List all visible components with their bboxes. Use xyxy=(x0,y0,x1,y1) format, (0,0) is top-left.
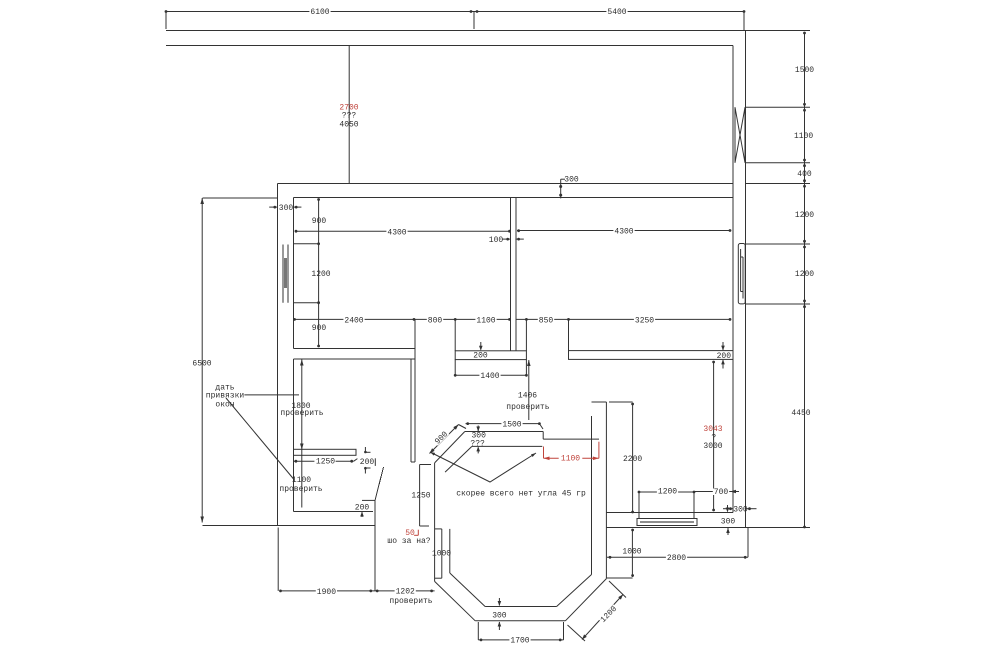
svg-text:2200: 2200 xyxy=(623,455,642,464)
arrow red 1100 left/right xyxy=(544,457,550,461)
arrowheads xyxy=(200,179,756,626)
window W4 bottom-right room bottom wall xyxy=(637,519,697,526)
svg-text:1500: 1500 xyxy=(795,66,814,75)
beam B rect 1400x200 xyxy=(455,351,526,360)
dim 6500 line xyxy=(201,198,203,523)
svg-text:3000: 3000 xyxy=(703,442,722,451)
dim left window extensions xyxy=(294,243,319,245)
svg-text:200: 200 xyxy=(473,352,488,361)
dim right column line 1500/1100/400/1200/1200/4450 xyxy=(804,32,806,527)
svg-text:1200: 1200 xyxy=(311,270,330,279)
arrow 6500 bottom (down) xyxy=(200,517,204,523)
arrow 1406 leader (up) xyxy=(527,360,531,366)
dim 2200 line xyxy=(632,403,634,513)
sill lower-left room 1250 xyxy=(294,449,357,455)
windows xyxy=(283,107,745,525)
svg-text:900: 900 xyxy=(312,217,327,226)
dim 200 beam C ticks xyxy=(722,342,724,350)
wire bay left wall inner xyxy=(449,529,451,573)
svg-text:4450: 4450 xyxy=(791,409,810,418)
wire bay bottom-right diagonal outer xyxy=(565,579,606,621)
svg-text:200: 200 xyxy=(360,458,375,467)
dim 1200 diagonal line xyxy=(582,595,623,640)
arrow 300 bay bottom (down)/(up) xyxy=(498,601,502,606)
wire bay top wall inner xyxy=(472,445,542,447)
window W2 right wall lower xyxy=(738,244,745,304)
red arrowheads xyxy=(544,457,599,461)
leader window note diagonal xyxy=(226,398,294,480)
wire bottom-left wall end cap xyxy=(374,501,376,526)
dim 1200 diagonal extensions xyxy=(609,581,626,598)
arrow 200 beam C (up) xyxy=(721,359,725,364)
svg-text:проверить: проверить xyxy=(506,403,549,412)
svg-text:300: 300 xyxy=(492,612,507,621)
arrow 300 bay top lower (up) xyxy=(476,446,480,451)
wire bottom-left wall outer xyxy=(203,525,376,527)
arrow 1800 (up) xyxy=(300,360,304,366)
arrow 200 beam B (down) xyxy=(479,346,483,351)
beam C rect 200 thick xyxy=(569,351,734,360)
arrow 200 door (up) xyxy=(360,512,364,517)
dim 3000 line xyxy=(713,361,715,511)
wire bay top-left diagonal inner xyxy=(445,446,472,472)
svg-text:1100: 1100 xyxy=(794,132,813,141)
dim 900 bay diagonal line xyxy=(430,425,459,454)
svg-text:6500: 6500 xyxy=(192,360,211,369)
svg-text:700: 700 xyxy=(714,488,729,497)
dim 1200 left window line xyxy=(318,244,320,303)
svg-text:1100: 1100 xyxy=(476,317,495,326)
dim extension beam C left xyxy=(568,319,570,350)
svg-text:1400: 1400 xyxy=(480,372,499,381)
dim 5400 right extension xyxy=(743,12,745,31)
wire interior top horizontal wall outer xyxy=(278,183,734,185)
beam A top xyxy=(294,348,416,350)
dim 300 bay ticks xyxy=(477,426,479,432)
wire bay right wall top cap xyxy=(592,401,607,403)
arrow leader no-45 right (up-right) xyxy=(531,453,536,457)
dim 300 top-left wall dots and tails xyxy=(269,206,277,208)
svg-text:200: 200 xyxy=(717,352,732,361)
dim 1200 window extensions xyxy=(638,492,640,518)
wire lower-left room right wall outer xyxy=(414,349,416,463)
svg-text:200: 200 xyxy=(355,504,370,513)
svg-text:1202: 1202 xyxy=(396,588,415,597)
svg-text:1200: 1200 xyxy=(795,211,814,220)
dim 200 beam B arrow tick xyxy=(480,342,482,348)
leader 1406 line xyxy=(528,360,530,420)
dim 2800 right extension xyxy=(747,528,749,557)
wire bay step horizontal xyxy=(543,438,599,440)
dim 1700 line xyxy=(478,639,563,641)
svg-text:300: 300 xyxy=(721,518,736,527)
wire center interior wall left line xyxy=(510,198,512,351)
svg-text:проверить: проверить xyxy=(280,409,323,418)
wire bay bottom-left diagonal outer xyxy=(435,581,476,620)
svg-text:проверить: проверить xyxy=(389,597,432,606)
dim 2800 dots xyxy=(609,556,612,559)
beam A bottom xyxy=(294,358,416,360)
red dimension marks xyxy=(414,442,599,536)
wire right wall inner xyxy=(732,46,734,513)
door leaf lower-left room xyxy=(375,467,384,501)
svg-text:???: ??? xyxy=(342,112,357,121)
bay window walls xyxy=(435,402,633,621)
dim 1900 line xyxy=(280,590,375,592)
svg-text:окон: окон xyxy=(215,401,234,410)
arrow 700 (left at wall) xyxy=(730,490,736,494)
dim 1400 extensions xyxy=(454,360,456,377)
arrow 6500 top (up) xyxy=(200,198,204,204)
window W1 right wall upper (bowtie) xyxy=(734,107,736,162)
svg-text:1200: 1200 xyxy=(658,488,677,497)
dim 1202 line xyxy=(375,590,435,592)
dim 1700 extensions xyxy=(477,622,479,640)
dim 100 wall dots and tails xyxy=(503,238,511,240)
svg-text:4300: 4300 xyxy=(387,229,406,238)
wire interior top horizontal wall inner xyxy=(294,197,734,199)
dim extension beam A right xyxy=(414,319,416,348)
wire lower-left room right wall inner xyxy=(410,359,412,462)
svg-text:1250: 1250 xyxy=(411,492,430,501)
svg-text:2800: 2800 xyxy=(667,554,686,563)
dimension lines xyxy=(166,12,810,642)
dim 1000 right line xyxy=(631,530,633,577)
svg-text:шо за на?: шо за на? xyxy=(387,537,430,546)
svg-text:100: 100 xyxy=(489,236,504,245)
svg-text:проверить: проверить xyxy=(279,485,322,494)
dim 300 top interior wall hook and dots xyxy=(560,179,562,198)
dim 200 door tick xyxy=(362,499,375,501)
dim 6100 line xyxy=(166,11,474,13)
svg-text:900: 900 xyxy=(433,430,450,447)
svg-text:2400: 2400 xyxy=(344,317,363,326)
wire bottom-left wall inner xyxy=(294,511,374,513)
wire bay right wall outer xyxy=(605,402,607,579)
dim 50 red bracket xyxy=(417,530,419,536)
dim 6100 left extension xyxy=(165,12,167,30)
leader window note horizontal xyxy=(244,394,299,396)
wire bay bottom-right diagonal inner xyxy=(557,575,592,607)
window W3 left wall xyxy=(282,245,284,303)
svg-text:3250: 3250 xyxy=(635,317,654,326)
wire left wall inner lower xyxy=(293,359,295,512)
svg-text:1406: 1406 xyxy=(518,392,537,401)
svg-text:300: 300 xyxy=(564,176,579,185)
dim 200 sill ticks xyxy=(364,447,366,453)
dim extension beam B left xyxy=(454,319,456,350)
dim 1200 window line xyxy=(639,491,694,493)
dim 4300 left line xyxy=(296,230,511,232)
wire lower-left room right wall cap xyxy=(411,461,415,463)
dim 4300 right line xyxy=(517,230,731,232)
wire top wall outer xyxy=(166,30,746,32)
svg-text:400: 400 xyxy=(797,170,812,179)
dim 2800 line xyxy=(607,556,748,558)
dim 1250 sill dots xyxy=(295,460,298,463)
svg-text:???: ??? xyxy=(470,439,485,448)
svg-text:900: 900 xyxy=(312,324,327,333)
wire bay bottom-left diagonal inner xyxy=(450,573,485,607)
bottom right room xyxy=(606,513,810,528)
svg-text:300: 300 xyxy=(279,204,294,213)
dim 1500 bay line xyxy=(466,423,540,425)
dim 2200 top extension xyxy=(609,401,633,403)
svg-text:1900: 1900 xyxy=(317,588,336,597)
svg-text:скорее всего нет угла 45 гр: скорее всего нет угла 45 гр xyxy=(456,490,586,499)
dim 900 left lower line xyxy=(318,303,320,347)
wire terrace notch horizontal xyxy=(606,577,632,579)
wire bay left wall outer xyxy=(434,463,436,582)
wire bay top wall outer xyxy=(465,431,543,433)
dim 6100/5400 middle extension xyxy=(473,12,475,30)
svg-text:300: 300 xyxy=(733,506,748,515)
dim 300 bottom-right wall arrow tail xyxy=(727,527,729,535)
dim 6500 top extension xyxy=(203,197,278,199)
svg-text:1100: 1100 xyxy=(561,455,580,464)
svg-text:привязки: привязки xyxy=(206,392,245,401)
dim 1100 red bracket xyxy=(543,447,545,459)
wire bay bottom outer xyxy=(475,620,565,622)
label 900 bay rotated xyxy=(433,429,451,447)
svg-text:1250: 1250 xyxy=(316,458,335,467)
label 1200 diagonal rotated xyxy=(598,604,619,625)
text background gaps xyxy=(309,9,729,644)
dim 700 line xyxy=(694,491,730,493)
arrow leader no-45 left (up-left) xyxy=(430,452,435,456)
svg-text:800: 800 xyxy=(428,317,443,326)
svg-text:1000: 1000 xyxy=(622,548,641,557)
leader no-45-angle xyxy=(430,452,536,482)
arrow 200 beam C (down) xyxy=(721,346,725,351)
wire center interior wall right line xyxy=(515,198,517,351)
dim right column extensions xyxy=(746,30,810,32)
svg-text:6100: 6100 xyxy=(310,8,329,17)
dim 1000 bay left line xyxy=(441,529,443,578)
wire left wall inner upper xyxy=(293,198,295,349)
svg-text:4050: 4050 xyxy=(339,121,358,130)
svg-text:1100: 1100 xyxy=(292,476,311,485)
wire right wall outer xyxy=(745,31,747,528)
dim 850-3250 line xyxy=(516,318,731,320)
svg-text:1000: 1000 xyxy=(432,550,451,559)
wire left wall outer xyxy=(277,184,279,526)
wire bay step vertical xyxy=(542,432,544,440)
svg-text:1500: 1500 xyxy=(502,421,521,430)
wire top wall inner xyxy=(166,45,733,47)
wire bay top-left diagonal outer xyxy=(435,432,465,463)
svg-text:1700: 1700 xyxy=(510,637,529,646)
arrow 300 below wall (up) xyxy=(726,528,730,533)
dim 1800 line xyxy=(301,360,303,508)
svg-text:850: 850 xyxy=(539,317,554,326)
wire bay right wall inner xyxy=(591,416,593,575)
wire bottom-right room bottom wall inner xyxy=(606,512,733,514)
svg-text:4300: 4300 xyxy=(614,228,633,237)
dim 200 sill dots xyxy=(364,451,367,454)
dim 1900 extensions xyxy=(277,528,279,591)
wire bay bottom inner xyxy=(485,606,556,608)
dim 2400-800-1100 line xyxy=(294,318,511,320)
dim 1400 line xyxy=(455,374,526,376)
svg-text:1200: 1200 xyxy=(795,270,814,279)
arrow 900 bay diagonal ends xyxy=(430,448,435,453)
svg-text:5400: 5400 xyxy=(607,8,626,17)
dim 1250 bay line xyxy=(419,465,421,527)
wire bottom-right room bottom wall outer xyxy=(606,527,810,529)
dim 1250 sill line xyxy=(294,460,354,462)
arrow 300 bay top (down) xyxy=(476,427,480,432)
arrow 1800 (down) xyxy=(300,444,304,450)
dimension end dots xyxy=(165,10,806,641)
dim 5400 line xyxy=(474,11,744,13)
dim 300 bay bottom ticks xyxy=(498,598,500,606)
dim 2700 vertical line xyxy=(348,46,350,184)
dim extension beam B right xyxy=(525,319,527,350)
dim 300 right wall dots and tails xyxy=(723,508,733,510)
dim 900 left upper line xyxy=(318,199,320,244)
